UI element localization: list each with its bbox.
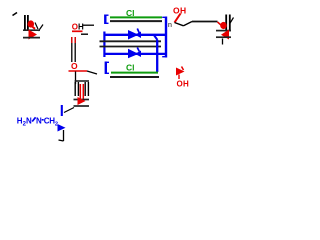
middle black double line [100, 41, 162, 46]
top row left blue bracket [105, 15, 108, 25]
svg-text:O: O [71, 61, 78, 71]
svg-text:N: N [36, 116, 42, 125]
blue amine text [17, 116, 58, 127]
tall right blue bracket [162, 17, 166, 58]
bottom row black line [110, 76, 159, 78]
methyl stub top left [13, 13, 18, 16]
left chain OH label [72, 23, 94, 63]
left chain ether O [69, 61, 98, 84]
bottom row left blue bracket [106, 62, 109, 75]
left epoxide end group [23, 15, 43, 40]
blue vertical bond above amine text [61, 105, 63, 116]
blue vertical plus-bracket [154, 35, 158, 41]
svg-text:O: O [177, 80, 183, 89]
svg-text:Cl: Cl [126, 63, 135, 73]
long black connector to right end group [192, 21, 218, 23]
red OH label lower right [177, 75, 190, 89]
black tail [59, 130, 64, 141]
top row black line [110, 20, 162, 22]
svg-text:N: N [26, 116, 32, 125]
top row green line [110, 16, 162, 18]
red OH label top right [173, 6, 186, 23]
bottom blue chain line with epoxide knot [104, 48, 166, 59]
right epoxide end group [216, 15, 234, 45]
bonds from OH vertex [175, 22, 193, 26]
red epoxide knot bottom-left [78, 97, 86, 105]
blue epoxide knot below amine [58, 124, 66, 132]
diagonal from carbonyl cluster to amine [64, 108, 74, 113]
svg-text:H: H [183, 80, 189, 89]
svg-text:H: H [78, 23, 84, 32]
svg-text:n: n [168, 22, 172, 29]
red epoxide knot right [176, 67, 185, 76]
top blue chain line with epoxide knot [104, 29, 167, 58]
bottom row green line [111, 72, 158, 74]
mid-left lower column C=O [74, 81, 90, 106]
svg-text:O: O [173, 6, 180, 16]
